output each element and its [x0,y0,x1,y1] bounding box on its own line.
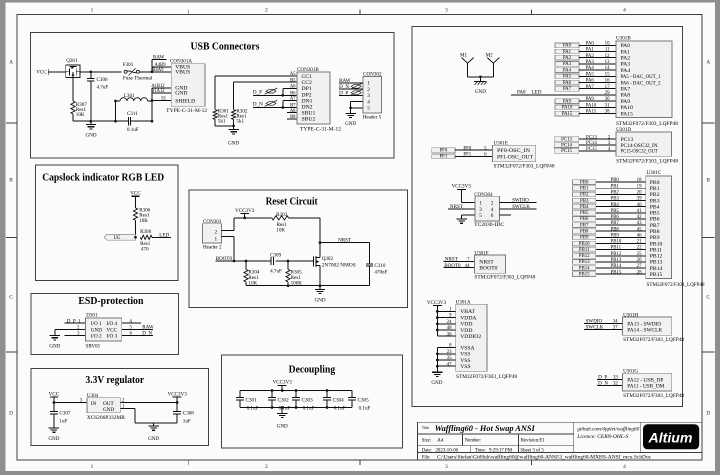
svg-text:CC2: CC2 [302,80,313,86]
capacitor C311 [116,111,153,133]
power VCC3V3 reset [235,208,255,219]
resistor R308 [140,229,171,252]
capacitor C302 [268,391,291,412]
svg-text:Waffling60 - Hot Swap ANSI: Waffling60 - Hot Swap ANSI [435,424,536,433]
svg-text:D301: D301 [86,312,98,318]
mcu U301D [616,127,678,164]
port PB0 [573,180,596,185]
svg-text:STM32F072/F303_LQFP48: STM32F072/F303_LQFP48 [623,337,684,343]
svg-text:21: 21 [637,240,642,245]
ground GND usb-left [85,121,96,138]
svg-text:LED: LED [532,90,542,96]
wire PB13 [596,261,646,263]
svg-text:PB5: PB5 [650,211,660,217]
svg-text:13: 13 [605,60,610,65]
svg-text:24: 24 [447,320,452,325]
svg-text:Licence: CERN-OHL-S: Licence: CERN-OHL-S [576,435,629,440]
section box: Reset Circuit [189,190,408,308]
svg-text:PA1: PA1 [563,50,572,55]
svg-text:PF0: PF0 [463,146,471,151]
svg-text:3: 3 [445,8,448,14]
connector CON301A [166,58,207,114]
svg-text:DN1: DN1 [302,98,313,104]
svg-text:PF1: PF1 [439,155,447,160]
wire D_P to D301 pin1 [65,322,86,324]
svg-text:GND: GND [475,89,486,95]
wire PA2 [579,57,616,59]
svg-text:VBUS: VBUS [175,70,190,76]
svg-text:M2: M2 [486,53,494,59]
svg-text:TYPE-C-31-M-12: TYPE-C-31-M-12 [300,126,341,132]
svg-text:4: 4 [491,207,494,213]
svg-text:PA4: PA4 [586,66,595,71]
svg-text:PB5: PB5 [611,209,620,214]
mcu U301A [456,299,518,380]
svg-text:VDD: VDD [460,328,472,334]
svg-text:3.3V regulator: 3.3V regulator [86,375,145,386]
svg-text:PA0: PA0 [621,43,631,49]
svg-text:PB6: PB6 [580,217,589,222]
svg-text:32: 32 [613,382,618,387]
svg-text:VCC: VCC [130,190,141,196]
svg-text:PA2: PA2 [586,54,595,59]
wire PA10 [579,106,616,108]
ground GND decoupling [277,408,288,430]
port PA1 [555,49,579,54]
svg-text:GND: GND [314,297,325,303]
svg-text:A: A [9,60,13,66]
svg-text:2: 2 [215,230,218,236]
svg-text:PB15: PB15 [611,270,622,275]
wire PB0 [596,181,646,183]
svg-text:D: D [9,411,13,417]
svg-text:C: C [707,295,711,301]
svg-text:PA3: PA3 [586,60,595,65]
power VCC3V3 decoupling [273,380,293,392]
svg-text:SRV05: SRV05 [86,343,101,349]
wire D301 pin3 stub [65,334,86,336]
wire U301A power pins [436,310,456,336]
svg-text:15: 15 [605,72,610,77]
svg-text:Date:: Date: [422,449,432,454]
port PB12 [573,253,596,258]
size row [422,437,546,443]
svg-text:29: 29 [605,91,610,96]
svg-text:14: 14 [605,66,610,71]
svg-text:10K: 10K [76,112,85,118]
svg-text:ESD-protection: ESD-protection [78,296,143,307]
svg-text:2: 2 [367,87,370,93]
port PA9 [555,99,579,104]
svg-text:23: 23 [447,350,452,355]
svg-text:PB3: PB3 [611,197,620,202]
wire CON304 pin2 SWDIO [500,202,537,204]
svg-text:Revision:E1: Revision:E1 [521,438,546,443]
svg-text:5k1: 5k1 [218,119,226,125]
wire D_N to U301G [597,385,623,387]
svg-text:PA5 - DAC_OUT_1: PA5 - DAC_OUT_1 [621,74,661,80]
wire C308 to ground [154,423,178,426]
svg-text:19: 19 [637,184,642,189]
svg-text:PB6: PB6 [611,215,620,220]
svg-text:D_N: D_N [142,331,152,337]
svg-text:Capslock indicator RGB LED: Capslock indicator RGB LED [42,172,164,183]
svg-text:PB7: PB7 [650,223,660,229]
svg-text:D_P: D_P [339,90,348,96]
svg-text:26: 26 [637,258,642,263]
wire VCC to Q301 [48,71,66,73]
svg-text:4: 4 [367,99,370,105]
svg-text:PA10: PA10 [621,105,634,111]
svg-text:0.1uF: 0.1uF [359,405,371,411]
svg-text:PB4: PB4 [650,204,660,210]
wire U304 OUT to VCC3V3 [120,401,178,404]
svg-text:PA12 - USB_DP: PA12 - USB_DP [627,377,663,383]
svg-text:STM32F072/F303_LQFP48: STM32F072/F303_LQFP48 [494,164,555,170]
svg-text:Q301: Q301 [66,58,78,64]
svg-text:37: 37 [613,326,618,331]
svg-text:PA6 - DAC_OUT_2: PA6 - DAC_OUT_2 [621,80,661,86]
wire PA3 [579,63,616,65]
wire decoupling top bus [240,389,352,392]
wire CON303 pin1 to BOOT0 [222,236,236,262]
svg-text:C306: C306 [97,77,108,83]
port PA5 [555,74,579,79]
wire U301A ground pins [436,348,456,373]
port PB7 [573,223,596,228]
resistor R301 [213,76,229,126]
wire PB14 [596,267,646,269]
svg-text:VDD: VDD [460,322,472,328]
power VCC3V3 U301A [427,300,447,336]
port PB11 [573,247,596,252]
port PB2 [573,192,596,197]
wire PF0 [455,149,492,151]
svg-text:42: 42 [637,215,642,220]
svg-text:20: 20 [637,190,642,195]
wire NRST node vertical [319,218,322,244]
svg-text:PB10: PB10 [611,240,622,245]
svg-text:PA10: PA10 [562,106,573,111]
section box: Decoupling [222,355,403,448]
svg-text:B: B [9,178,13,184]
svg-text:PA6: PA6 [563,81,572,86]
svg-text:VDDA: VDDA [460,315,477,321]
svg-text:STM32F072/F303_LQFP48: STM32F072/F303_LQFP48 [456,374,517,380]
transistor Q302 [314,243,356,286]
connector CON303 [203,219,222,250]
svg-text:C308: C308 [183,411,194,417]
svg-text:PA8: PA8 [517,90,526,96]
svg-text:M1: M1 [460,53,468,59]
svg-text:Reset Circuit: Reset Circuit [266,196,318,207]
svg-text:PB3: PB3 [650,198,660,204]
svg-text:STM32F072/F303_LQFP48: STM32F072/F303_LQFP48 [474,274,535,280]
svg-text:PB1: PB1 [650,186,660,192]
svg-text:U301B: U301B [616,35,631,41]
port PA3 [555,62,579,67]
title block [418,422,703,460]
svg-text:2N7002 NMOS: 2N7002 NMOS [322,263,356,269]
svg-text:PB14: PB14 [650,266,663,272]
wire CON304 pin4 SWCLK [500,208,537,210]
svg-text:SWCLK: SWCLK [512,204,530,210]
wire GND pins CON301A [151,88,172,123]
svg-text:TYPE-C-31-M-12: TYPE-C-31-M-12 [166,108,207,114]
wire PB15 [596,273,646,275]
svg-text:9:29:17 PM: 9:29:17 PM [489,449,513,454]
svg-text:PA4: PA4 [621,68,631,74]
svg-text:PC15: PC15 [586,147,597,152]
section box: Capslock indicator RGB LED [36,165,179,281]
capacitor C309 [270,252,282,274]
port PA10 [555,105,579,110]
wire PA8 LED [511,94,616,96]
svg-text:PB15: PB15 [579,273,590,278]
wire DN1/DN2 net D_N [253,101,297,109]
svg-text:2: 2 [265,464,268,470]
svg-text:Sheet 3 of 3: Sheet 3 of 3 [520,449,544,454]
svg-text:VSS: VSS [460,358,470,364]
svg-text:C307: C307 [59,411,70,417]
section box: MCU [412,27,682,407]
svg-text:PC13: PC13 [586,135,597,140]
section box: ESD-protection [31,293,178,354]
svg-text:GND: GND [103,407,114,413]
svg-text:Number:: Number: [465,438,482,443]
wire reset ground rail [246,284,370,287]
port PB8 [573,229,596,234]
svg-text:0.1uF: 0.1uF [303,405,315,411]
svg-text:VSS: VSS [460,352,470,358]
mcu U301B [616,35,678,127]
svg-text:C301: C301 [246,397,257,403]
svg-text:A8: A8 [290,109,296,114]
svg-text:C:\Users\Stefan\GitHub\wafflin: C:\Users\Stefan\GitHub\waffling60@waffli… [437,455,651,460]
svg-text:4.7uF: 4.7uF [97,84,109,90]
wire PB12 [596,255,646,257]
port PB3 [573,198,596,203]
svg-text:PF0: PF0 [439,149,447,154]
svg-text:17: 17 [605,85,610,90]
svg-text:GND: GND [91,327,102,333]
svg-text:C311: C311 [127,111,138,117]
svg-text:PC14: PC14 [561,143,572,148]
svg-text:30: 30 [605,97,610,102]
svg-text:PC15-OSC32_OUT: PC15-OSC32_OUT [621,149,658,155]
net label D_P at CON302 [339,89,362,96]
svg-text:PB0: PB0 [611,178,620,183]
svg-text:45: 45 [637,227,642,232]
port PB15 [573,272,596,277]
svg-text:PA10: PA10 [586,103,597,108]
resistor R306 [133,208,150,238]
svg-text:10K: 10K [139,218,148,224]
svg-text:18: 18 [637,178,642,183]
connector CON302 [363,71,382,120]
svg-text:0.1uF: 0.1uF [334,405,346,411]
port PA7 [555,86,579,91]
svg-text:PB15: PB15 [650,272,663,278]
wire VCC to U304 [53,401,87,404]
svg-text:BOOT0: BOOT0 [479,266,497,272]
wire Q301 drain to F301 [80,70,122,73]
svg-text:B: B [707,178,711,184]
svg-text:RAW: RAW [142,324,154,330]
svg-text:5: 5 [479,213,482,219]
wire PA9 [579,100,616,102]
capacitor C310 [366,243,388,286]
svg-text:470: 470 [141,246,149,252]
svg-text:PB9: PB9 [611,233,620,238]
svg-text:VCC: VCC [36,69,47,75]
port PA2 [555,55,579,60]
wire BOOT0 to U301F [444,267,475,269]
net label D_P at CON301B [253,88,277,95]
wire D301 pin5 RAW [122,328,153,330]
svg-text:PB2: PB2 [580,193,589,198]
wire PC13 [579,138,616,140]
wire PB1 [596,187,646,189]
svg-text:1: 1 [479,201,482,207]
wire DP1/DP2 net D_P [253,88,297,96]
wire CON304 pin6 stub [500,214,512,216]
svg-text:VCC3V3: VCC3V3 [273,380,293,386]
svg-text:DN2: DN2 [302,105,313,111]
svg-text:F301: F301 [123,62,134,68]
svg-text:4: 4 [623,8,626,14]
svg-text:PB11: PB11 [650,247,663,253]
svg-text:USB Connectors: USB Connectors [191,42,260,53]
svg-text:1: 1 [91,8,94,14]
wire SBU stubs [287,113,297,119]
port PB10 [573,241,596,246]
wire SWCLK to U301H [584,329,623,331]
svg-text:PA9: PA9 [563,99,572,104]
svg-text:34: 34 [613,319,618,324]
svg-text:PB13: PB13 [579,260,590,265]
port PB5 [573,210,596,215]
svg-text:U301C: U301C [647,170,662,176]
svg-text:47: 47 [447,362,452,367]
svg-text:6: 6 [491,213,494,219]
svg-text:4.7uF: 4.7uF [270,269,282,275]
wire RAW to CON302 pin1 [339,82,363,84]
svg-text:B5: B5 [290,78,296,83]
svg-text:B4A9: B4A9 [152,68,164,73]
fuse F301 [123,62,153,81]
svg-text:TC2030-IDC: TC2030-IDC [474,222,505,228]
wire PB7 [596,224,646,226]
wire D_P to CON302 pin3 [339,94,363,96]
net label RAW [152,55,167,72]
wire VCC rail to R303 [234,217,272,219]
svg-text:PA3: PA3 [621,62,631,68]
wire PA5 [579,75,616,77]
svg-text:PB0: PB0 [650,180,660,186]
svg-text:PA15: PA15 [562,112,573,117]
svg-text:3: 3 [445,464,448,470]
connector CON301B [297,67,341,133]
svg-text:PB13: PB13 [650,260,663,266]
port PA4 [555,68,579,73]
svg-text:25: 25 [637,252,642,257]
capacitor C301 [236,391,259,412]
svg-text:PB4: PB4 [611,203,620,208]
title text Waffling60 - Hot Swap ANSI [422,424,536,433]
port PB4 [573,204,596,209]
wire PC14 [579,144,616,146]
svg-text:PB13: PB13 [611,258,622,263]
svg-text:B8: B8 [290,115,296,120]
svg-text:33: 33 [613,375,618,380]
svg-text:I/O 3: I/O 3 [106,334,117,340]
svg-text:PA2: PA2 [621,56,631,62]
svg-text:PB10: PB10 [579,242,590,247]
svg-text:PA11 - USB_DM: PA11 - USB_DM [627,384,664,390]
svg-text:PA9: PA9 [586,97,595,102]
svg-text:PC13: PC13 [561,138,572,143]
wire PB6 [596,218,646,220]
svg-text:Header 5: Header 5 [363,115,382,121]
svg-text:D_P: D_P [253,89,262,95]
wire PB10 [596,243,646,245]
capacitor C306 [87,72,108,121]
svg-text:PB1: PB1 [580,187,589,192]
svg-text:39: 39 [637,197,642,202]
svg-text:5k1: 5k1 [236,119,244,125]
svg-text:File:: File: [422,455,431,460]
port PB1 [573,186,596,191]
svg-text:36: 36 [447,332,452,337]
svg-text:PA1: PA1 [621,49,631,55]
svg-text:github.com/4pplet/waffling60: github.com/4pplet/waffling60 [577,428,640,433]
mcu U301F [474,250,535,280]
wire CON303 pin2 to VCC rail [222,218,235,231]
svg-text:PB12: PB12 [579,254,590,259]
section box: USB Connectors [31,33,395,158]
svg-text:VCC: VCC [106,327,117,333]
capacitor C308 [173,403,194,425]
ground GND c307 [48,428,59,442]
port VCC [36,69,48,76]
date row [422,449,544,454]
svg-text:DP1: DP1 [302,86,312,92]
wire PB5 [596,212,646,214]
wire decoupling bottom rail [240,406,352,409]
svg-text:38: 38 [605,110,610,115]
svg-text:PB8: PB8 [580,230,589,235]
svg-text:PB2: PB2 [650,192,660,198]
svg-text:1: 1 [91,464,94,470]
svg-text:Fuse Thermal: Fuse Thermal [123,75,153,81]
svg-text:48: 48 [447,326,452,331]
svg-text:46: 46 [637,233,642,238]
port PB13 [573,260,596,265]
regulator U304 [87,393,126,421]
inductor L301 [114,93,152,121]
svg-text:PA4: PA4 [563,68,572,73]
wire PB3 [596,200,646,202]
svg-text:A: A [706,60,710,66]
port PF0 [432,148,455,153]
wire ground rail [73,120,117,123]
Altium logo [643,424,699,449]
svg-text:GND: GND [345,121,356,127]
resistor R304 [244,261,260,287]
port PC13 [554,137,579,142]
svg-text:PB9: PB9 [580,236,589,241]
